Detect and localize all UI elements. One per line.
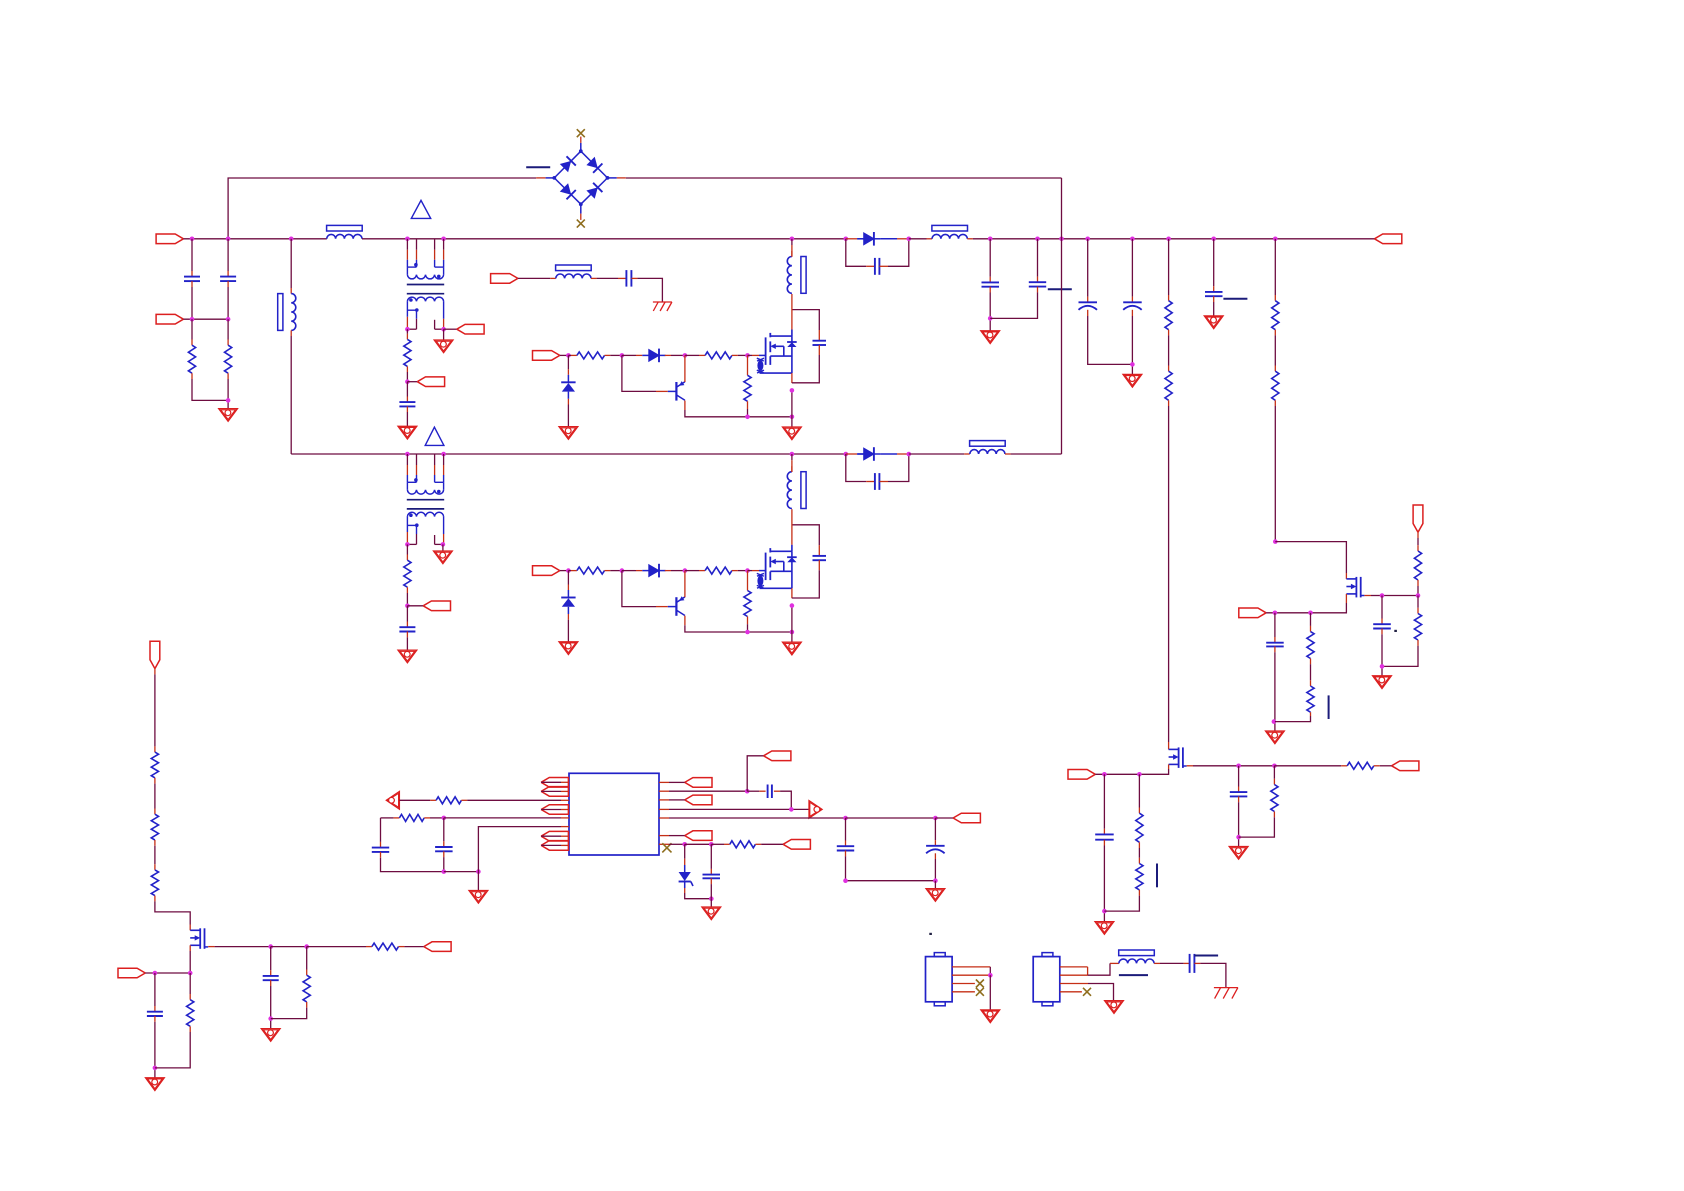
wire bbox=[191, 287, 193, 319]
junction bbox=[620, 568, 625, 573]
wire bbox=[145, 972, 190, 974]
junction bbox=[683, 353, 688, 358]
wire bbox=[699, 354, 705, 356]
wire bbox=[406, 622, 408, 628]
wire bbox=[1138, 842, 1140, 848]
power port arrow bbox=[386, 792, 399, 810]
wire bbox=[818, 345, 820, 355]
wire bbox=[1104, 896, 1139, 912]
junction bbox=[682, 842, 687, 847]
wire bbox=[189, 973, 191, 994]
IC pin L2 bbox=[561, 790, 569, 792]
capacitor C24 bbox=[703, 875, 721, 879]
wire bbox=[1168, 295, 1170, 301]
wire bbox=[597, 277, 618, 279]
wire bbox=[774, 790, 780, 792]
earth ground bbox=[1214, 988, 1238, 999]
pin wire bbox=[1060, 966, 1088, 968]
wire bbox=[671, 354, 685, 356]
pin wire bbox=[952, 983, 975, 985]
wire bbox=[846, 453, 857, 455]
power MOSFET M2 bbox=[757, 545, 797, 589]
resistor R12 bbox=[577, 567, 605, 574]
wire bbox=[1110, 962, 1119, 964]
capacitor C1 bbox=[184, 277, 200, 282]
wire bbox=[934, 859, 936, 881]
wire bbox=[791, 251, 793, 257]
capacitor Csn2 bbox=[813, 556, 827, 560]
wire bbox=[724, 843, 730, 845]
wire bbox=[189, 925, 191, 931]
wire bbox=[155, 901, 190, 924]
wire main bus bbox=[362, 238, 846, 240]
port RT bbox=[541, 787, 568, 797]
wire bbox=[518, 277, 550, 279]
wire bbox=[780, 791, 791, 809]
wire bbox=[1381, 619, 1383, 625]
wire bbox=[866, 481, 875, 483]
port AUX1 bbox=[457, 324, 484, 334]
wire bbox=[1381, 596, 1383, 619]
junction bbox=[988, 973, 993, 978]
wire bbox=[227, 340, 229, 346]
capacitor C10 bbox=[1205, 292, 1223, 296]
wire Q4 source bbox=[1168, 764, 1170, 769]
wire bbox=[154, 973, 156, 1006]
junction bbox=[153, 1066, 158, 1071]
wire bbox=[1168, 335, 1170, 365]
dash label bbox=[1328, 695, 1330, 719]
wire bbox=[424, 817, 430, 819]
wire bbox=[1168, 742, 1170, 749]
wire bbox=[406, 397, 408, 403]
resistor R6 bbox=[1272, 301, 1279, 330]
no-connect X bbox=[662, 843, 671, 852]
wire bbox=[1310, 664, 1312, 680]
wire bbox=[1103, 846, 1105, 922]
wire bbox=[1131, 316, 1133, 374]
wire BJT collector bbox=[684, 355, 686, 382]
wire bbox=[1037, 239, 1039, 277]
wire bbox=[366, 946, 372, 948]
capacitor C9 bbox=[1123, 302, 1142, 310]
wire bbox=[560, 354, 569, 356]
wire bbox=[665, 354, 671, 356]
no-connect X bbox=[1083, 988, 1091, 996]
wire bbox=[1138, 858, 1140, 864]
power port arrow bbox=[809, 801, 822, 819]
IC pin R2 bbox=[659, 790, 669, 792]
port VC bbox=[541, 831, 568, 841]
junction bbox=[405, 542, 410, 547]
ground bbox=[1123, 374, 1142, 387]
wire bbox=[407, 605, 423, 607]
wire bbox=[685, 843, 712, 845]
wire bbox=[622, 354, 636, 356]
wire MOSFET source bbox=[791, 373, 793, 383]
ground bbox=[926, 889, 945, 902]
wire bbox=[747, 571, 749, 591]
wire bbox=[1417, 640, 1419, 646]
resistor R1 bbox=[188, 345, 195, 373]
dash label bbox=[1048, 288, 1072, 290]
wire bbox=[818, 545, 820, 556]
junction bbox=[566, 353, 571, 358]
wire bbox=[568, 570, 571, 572]
wire Q5 source bbox=[189, 945, 191, 951]
port EN2 bbox=[118, 968, 145, 978]
port FB_OUT bbox=[1392, 761, 1419, 771]
wire bbox=[684, 859, 686, 865]
wire bbox=[567, 620, 569, 642]
capacitor C18 bbox=[263, 976, 279, 980]
wire bbox=[227, 373, 229, 379]
diode D1 bbox=[642, 349, 665, 363]
port PWM2 bbox=[533, 566, 560, 576]
junction bbox=[745, 568, 750, 573]
wire bbox=[567, 355, 569, 369]
wire bbox=[270, 986, 272, 1029]
wire bbox=[791, 606, 793, 643]
wire bbox=[406, 637, 408, 650]
wire bbox=[759, 790, 765, 792]
junction bbox=[405, 327, 410, 332]
connector J1 bbox=[926, 953, 953, 1006]
junction bbox=[1380, 664, 1385, 669]
wire bbox=[1239, 817, 1275, 837]
junction bbox=[1130, 362, 1135, 367]
wire bbox=[1087, 239, 1089, 297]
resistor R15 bbox=[1347, 762, 1374, 769]
wire bbox=[631, 277, 637, 279]
junction bbox=[1308, 611, 1313, 616]
wire main bus left bbox=[183, 238, 326, 240]
wire bbox=[541, 781, 561, 783]
wire main bus out bbox=[973, 238, 1375, 240]
wire bbox=[406, 606, 408, 622]
junction bbox=[441, 452, 446, 457]
wire bbox=[227, 319, 229, 339]
wire snubber loop bbox=[846, 454, 866, 482]
wire bbox=[1184, 962, 1190, 964]
junction bbox=[1236, 835, 1241, 840]
wire bbox=[738, 354, 748, 356]
wire bbox=[270, 947, 272, 971]
wire bbox=[306, 947, 308, 970]
junction bbox=[1102, 909, 1107, 914]
wire bbox=[748, 570, 753, 572]
wire BJT emitter bbox=[684, 401, 686, 411]
junction bbox=[190, 317, 195, 322]
wire bbox=[567, 585, 569, 591]
wire bbox=[1417, 596, 1419, 608]
ground bbox=[1095, 922, 1114, 935]
wire bbox=[227, 239, 229, 271]
wire snubber bbox=[792, 310, 819, 330]
IC pin L7 bbox=[561, 835, 569, 837]
junction bbox=[442, 869, 447, 874]
wire bbox=[1274, 646, 1276, 652]
wire Q3 source bbox=[1345, 594, 1347, 603]
resistor R10 bbox=[1414, 614, 1421, 641]
wire bbox=[934, 818, 936, 840]
ferrite bead FB3 bbox=[556, 265, 592, 278]
wire bbox=[1168, 330, 1170, 336]
wire bbox=[394, 817, 400, 819]
wire bbox=[478, 827, 561, 872]
wire bbox=[732, 354, 738, 356]
junction bbox=[988, 316, 993, 321]
wire bbox=[748, 354, 753, 356]
wire bbox=[752, 570, 759, 572]
ground bbox=[559, 427, 578, 440]
wire bbox=[191, 271, 193, 277]
pin wire bbox=[952, 974, 990, 976]
ground bbox=[469, 891, 488, 904]
wire bbox=[989, 967, 991, 975]
wire bbox=[271, 946, 307, 948]
port ISENSE bbox=[783, 840, 810, 850]
wire bbox=[1341, 765, 1347, 767]
wire bbox=[155, 1032, 190, 1068]
IC pin L5 bbox=[561, 817, 569, 819]
junction bbox=[405, 452, 410, 457]
wire bbox=[290, 239, 292, 288]
ferrite bead FB5 bbox=[970, 441, 1006, 454]
wire bbox=[710, 884, 712, 899]
ground bbox=[261, 1029, 280, 1042]
IC pin L6 bbox=[561, 826, 569, 828]
wire bbox=[1168, 400, 1170, 406]
ground bbox=[1204, 316, 1223, 329]
wire bbox=[477, 872, 479, 891]
wire bbox=[1382, 586, 1418, 596]
wire bbox=[989, 239, 991, 277]
transformer T2 bbox=[407, 454, 444, 544]
wire bbox=[897, 453, 909, 455]
junction bbox=[790, 237, 795, 242]
wire bbox=[846, 856, 936, 880]
wire bbox=[1088, 316, 1133, 364]
wire bbox=[626, 177, 1062, 179]
wire bbox=[934, 840, 936, 846]
wire bbox=[989, 287, 991, 293]
wire bbox=[685, 893, 712, 899]
wire bbox=[567, 369, 569, 375]
ferrite bead FB4 bbox=[932, 225, 968, 238]
wire bbox=[406, 329, 408, 334]
wire bbox=[154, 846, 156, 864]
junction bbox=[1102, 772, 1107, 777]
wire bead to bus bbox=[791, 239, 793, 257]
junction bbox=[843, 878, 848, 883]
wire bbox=[1131, 297, 1133, 303]
wire bbox=[1103, 829, 1105, 835]
wire bbox=[1213, 286, 1215, 292]
wire bbox=[637, 278, 662, 302]
ground bbox=[783, 427, 802, 440]
junction bbox=[1380, 593, 1385, 598]
port SS bbox=[541, 805, 568, 815]
wire bbox=[191, 281, 193, 287]
transistor Q2 bbox=[668, 596, 685, 616]
wire bbox=[752, 354, 759, 356]
wire bbox=[1266, 612, 1310, 614]
wire bbox=[571, 354, 577, 356]
tiny mark bbox=[929, 933, 932, 935]
resistor R18 bbox=[151, 814, 158, 840]
resistor R19 bbox=[151, 870, 158, 896]
wire bbox=[989, 277, 991, 283]
wire bbox=[227, 379, 229, 409]
wire bbox=[443, 857, 445, 872]
wire bbox=[1168, 239, 1170, 295]
ground bbox=[219, 409, 238, 422]
dash label bbox=[1119, 974, 1148, 976]
wire bbox=[755, 843, 761, 845]
wire bbox=[270, 970, 272, 976]
ground bbox=[398, 650, 417, 663]
wire MOSFET drain bbox=[791, 509, 793, 545]
port PIN1 bbox=[156, 234, 183, 244]
IC pin R5 bbox=[659, 817, 669, 819]
port FB_S bbox=[424, 942, 451, 952]
junction bbox=[790, 452, 795, 457]
wire BJT collector bbox=[684, 571, 686, 598]
junction bbox=[405, 237, 410, 242]
zener Z1 bbox=[561, 375, 575, 399]
junction bbox=[1273, 539, 1278, 544]
junction bbox=[745, 630, 750, 635]
junction bbox=[1273, 237, 1278, 242]
IC pin L8 bbox=[561, 844, 569, 846]
ground bbox=[434, 340, 453, 353]
wire bbox=[1380, 765, 1392, 767]
wire bbox=[685, 410, 792, 417]
ferrite bead FB1 bbox=[327, 225, 363, 238]
wire bbox=[560, 570, 569, 572]
wire bbox=[227, 287, 229, 319]
wire bbox=[845, 851, 847, 857]
wire bbox=[1274, 330, 1276, 336]
wire bbox=[989, 293, 991, 331]
junction bbox=[1416, 593, 1421, 598]
junction bbox=[1272, 764, 1277, 769]
wire bbox=[1160, 962, 1184, 964]
resistor R9 bbox=[1414, 551, 1421, 580]
wire bbox=[406, 372, 408, 382]
wire bbox=[747, 401, 749, 409]
resistor R31 bbox=[744, 375, 751, 401]
wire bbox=[665, 570, 671, 572]
wire bbox=[935, 817, 953, 819]
capacitor C11 bbox=[399, 627, 415, 631]
triangle marker bbox=[411, 200, 430, 218]
wire bbox=[818, 560, 820, 570]
wire bbox=[154, 1006, 156, 1012]
wire bbox=[605, 354, 611, 356]
wire bbox=[909, 238, 927, 240]
wire bbox=[927, 238, 933, 240]
wire bbox=[791, 390, 793, 427]
junction bbox=[441, 237, 446, 242]
wire bbox=[1310, 626, 1312, 632]
MOSFET Q4 bbox=[1169, 747, 1183, 768]
wire bbox=[154, 840, 156, 846]
wire bbox=[381, 817, 394, 819]
wire bbox=[406, 587, 408, 593]
wire bbox=[380, 842, 382, 848]
capacitor C17 bbox=[147, 1012, 163, 1016]
wire bbox=[290, 330, 292, 336]
wire bbox=[747, 790, 759, 792]
wire bbox=[154, 864, 156, 870]
port EN1 bbox=[1239, 608, 1266, 618]
wire bbox=[1238, 766, 1240, 787]
wire bbox=[1273, 766, 1275, 779]
wire bbox=[669, 799, 685, 801]
wire bbox=[685, 625, 792, 632]
no-connect X bridge AC2 bbox=[577, 220, 585, 228]
wire bbox=[1037, 287, 1039, 293]
wire bbox=[1274, 406, 1276, 542]
port PIN3 bbox=[491, 274, 518, 284]
junction bbox=[304, 944, 309, 949]
port SYNC bbox=[541, 778, 568, 788]
wire bbox=[1103, 774, 1105, 829]
port PWM1 bbox=[533, 351, 560, 361]
junction bbox=[405, 604, 410, 609]
wire bbox=[541, 835, 561, 837]
junction bbox=[683, 568, 688, 573]
wire bbox=[888, 239, 909, 266]
wire bbox=[541, 790, 561, 792]
wire bbox=[1037, 277, 1039, 283]
junction bbox=[566, 568, 571, 573]
wire bbox=[1138, 774, 1140, 807]
wire bbox=[669, 835, 685, 837]
wire BJT emitter bbox=[684, 616, 686, 626]
wire bbox=[1274, 239, 1276, 295]
wire bbox=[381, 858, 444, 872]
wire bbox=[192, 379, 228, 400]
port VCC2 bbox=[764, 751, 791, 761]
junction bbox=[907, 237, 912, 242]
wire bbox=[406, 544, 408, 554]
wire bbox=[1381, 634, 1383, 676]
junction bbox=[709, 896, 714, 901]
wire bbox=[191, 340, 193, 346]
wire bbox=[406, 366, 408, 372]
wire bbox=[1417, 608, 1419, 614]
wire bbox=[710, 844, 712, 869]
junction bbox=[226, 398, 231, 403]
junction bbox=[1166, 237, 1171, 242]
wire bbox=[444, 871, 479, 873]
wire bbox=[541, 844, 561, 846]
wire bbox=[684, 844, 686, 858]
wire bbox=[989, 975, 991, 1010]
wire bbox=[622, 570, 636, 572]
wire bbox=[934, 853, 936, 859]
transistor Q1 bbox=[668, 381, 685, 401]
dash label bbox=[1223, 298, 1247, 300]
junction bbox=[907, 452, 912, 457]
resistor R22 bbox=[303, 975, 310, 1002]
junction bbox=[745, 789, 750, 794]
IC pin L1 bbox=[561, 781, 569, 783]
resistor R22 bbox=[705, 567, 732, 574]
